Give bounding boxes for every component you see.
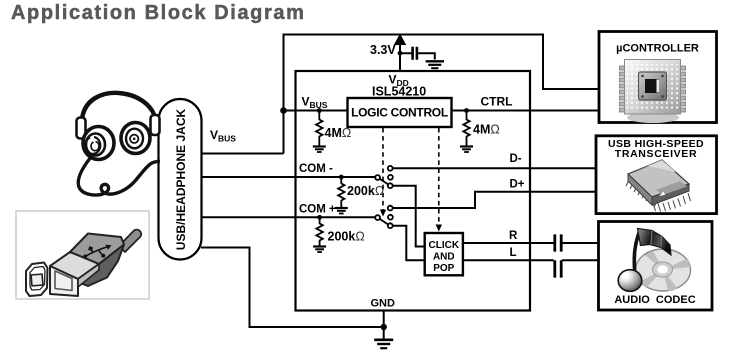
node VBUS/R1 — [317, 108, 322, 113]
svg-text:ISL54210: ISL54210 — [372, 85, 426, 99]
svg-text:Application Block Diagram: Application Block Diagram — [11, 2, 306, 24]
svg-text:AND: AND — [433, 252, 455, 263]
switch SW2 (COM+) — [375, 206, 393, 228]
svg-text:L: L — [510, 247, 517, 259]
shell front face — [50, 266, 78, 296]
svg-text:D+: D+ — [510, 179, 525, 191]
svg-text:CTRL: CTRL — [481, 95, 513, 109]
wire COM- from jack to switch pole — [201, 176, 376, 178]
node CTRL/R2 — [464, 108, 469, 113]
wire COM+ from jack to switch pole — [201, 216, 376, 218]
svg-text:200kΩ: 200kΩ — [347, 184, 384, 198]
svg-text:TRANSCEIVER: TRANSCEIVER — [615, 148, 697, 160]
ground (3.3V cap) — [426, 61, 444, 68]
svg-text:µCONTROLLER: µCONTROLLER — [616, 43, 699, 55]
svg-text:VBUS: VBUS — [210, 128, 236, 144]
dashed control line to switches — [382, 128, 384, 210]
overmold right face — [76, 245, 124, 287]
wire L path switch to click-pop — [393, 226, 425, 261]
audio codec CD + note icon — [618, 229, 690, 292]
capacitor C1 (3.3V decoupling) plates — [413, 47, 417, 60]
svg-text:D-: D- — [510, 153, 522, 165]
svg-text:AUDIO CODEC: AUDIO CODEC — [614, 294, 695, 306]
uController box — [599, 32, 717, 123]
USB connector illustration frame — [16, 211, 149, 299]
dashed control line to click-pop — [438, 128, 440, 225]
wire 3.3V supply to VDD — [399, 44, 401, 71]
ground (R3) — [335, 208, 348, 214]
wire L out to audio codec — [463, 259, 599, 261]
headphones sketch — [77, 93, 161, 195]
svg-text:R: R — [509, 230, 518, 242]
resistor R1 4M (VBUS pulldown) — [316, 111, 322, 147]
ground (main GND) — [374, 327, 393, 348]
svg-text:LOGIC CONTROL: LOGIC CONTROL — [351, 106, 448, 120]
USB plug illustration — [26, 230, 141, 296]
ground (R1) — [313, 147, 326, 153]
socket icon hole — [31, 274, 43, 286]
USB transceiver box — [596, 136, 717, 214]
headphone cord — [78, 157, 160, 195]
wire VBUS outer routing: jack to top rail to uController — [201, 35, 599, 154]
junction dots — [280, 51, 469, 330]
wire cap branch from 3.3V — [400, 53, 435, 59]
shell top face — [50, 252, 99, 279]
IC block ISL54210 outline — [296, 71, 531, 311]
ground (R4) — [313, 247, 326, 253]
svg-text:POP: POP — [433, 263, 454, 274]
svg-text:3.3V: 3.3V — [370, 43, 396, 57]
node GND — [381, 324, 387, 330]
shell right sliver — [78, 264, 99, 287]
audio codec box — [599, 222, 713, 311]
shell inner opening — [55, 271, 72, 291]
capacitor C3 (L line series) plates — [555, 260, 561, 277]
wire VBUS/CTRL main rail through logic control — [284, 110, 600, 112]
socket icon outer — [26, 263, 48, 297]
wire D- from switch throw to transceiver — [392, 167, 596, 169]
wire R path switch to click-pop — [392, 186, 425, 247]
resistor R4 200k (COM+ pulldown) — [316, 217, 322, 246]
wire D+ from switch throw to transceiver — [393, 192, 597, 208]
uController chip icon — [620, 60, 686, 124]
wire R out to audio codec — [463, 242, 599, 244]
svg-text:GND: GND — [371, 298, 396, 310]
svg-text:COM -: COM - — [299, 163, 333, 175]
node VBUS corner — [280, 107, 287, 114]
3.3V supply arrow — [394, 34, 406, 46]
node 3.3V/C1 — [398, 51, 403, 56]
svg-text:CLICK: CLICK — [429, 240, 460, 251]
resistor R3 200k (COM- pulldown) — [338, 177, 344, 208]
node COM+/R4 — [317, 215, 322, 220]
socket icon inner — [30, 267, 45, 291]
svg-text:4MΩ: 4MΩ — [473, 123, 500, 137]
switch SW1 (COM-) — [375, 166, 393, 188]
svg-text:200kΩ: 200kΩ — [328, 230, 365, 244]
overmold top face — [70, 234, 124, 265]
svg-text:COM +: COM + — [299, 204, 336, 216]
svg-text:VBUS: VBUS — [302, 95, 328, 111]
capacitor C2 (R line series) plates — [555, 234, 561, 251]
wire GND return from jack to ground node — [201, 248, 384, 328]
USB/headphone jack block — [159, 99, 202, 260]
USB trident symbol — [83, 245, 111, 259]
svg-text:USB/HEADPHONE JACK: USB/HEADPHONE JACK — [174, 108, 188, 250]
click and pop box — [425, 233, 463, 275]
resistor R2 4M (CTRL pulldown) — [463, 111, 469, 147]
cable stub — [119, 230, 141, 252]
logic control box U1 — [348, 98, 452, 127]
transceiver chip icon — [626, 160, 691, 212]
ground (R2) — [460, 147, 473, 153]
node COM-/R3 — [339, 175, 344, 180]
